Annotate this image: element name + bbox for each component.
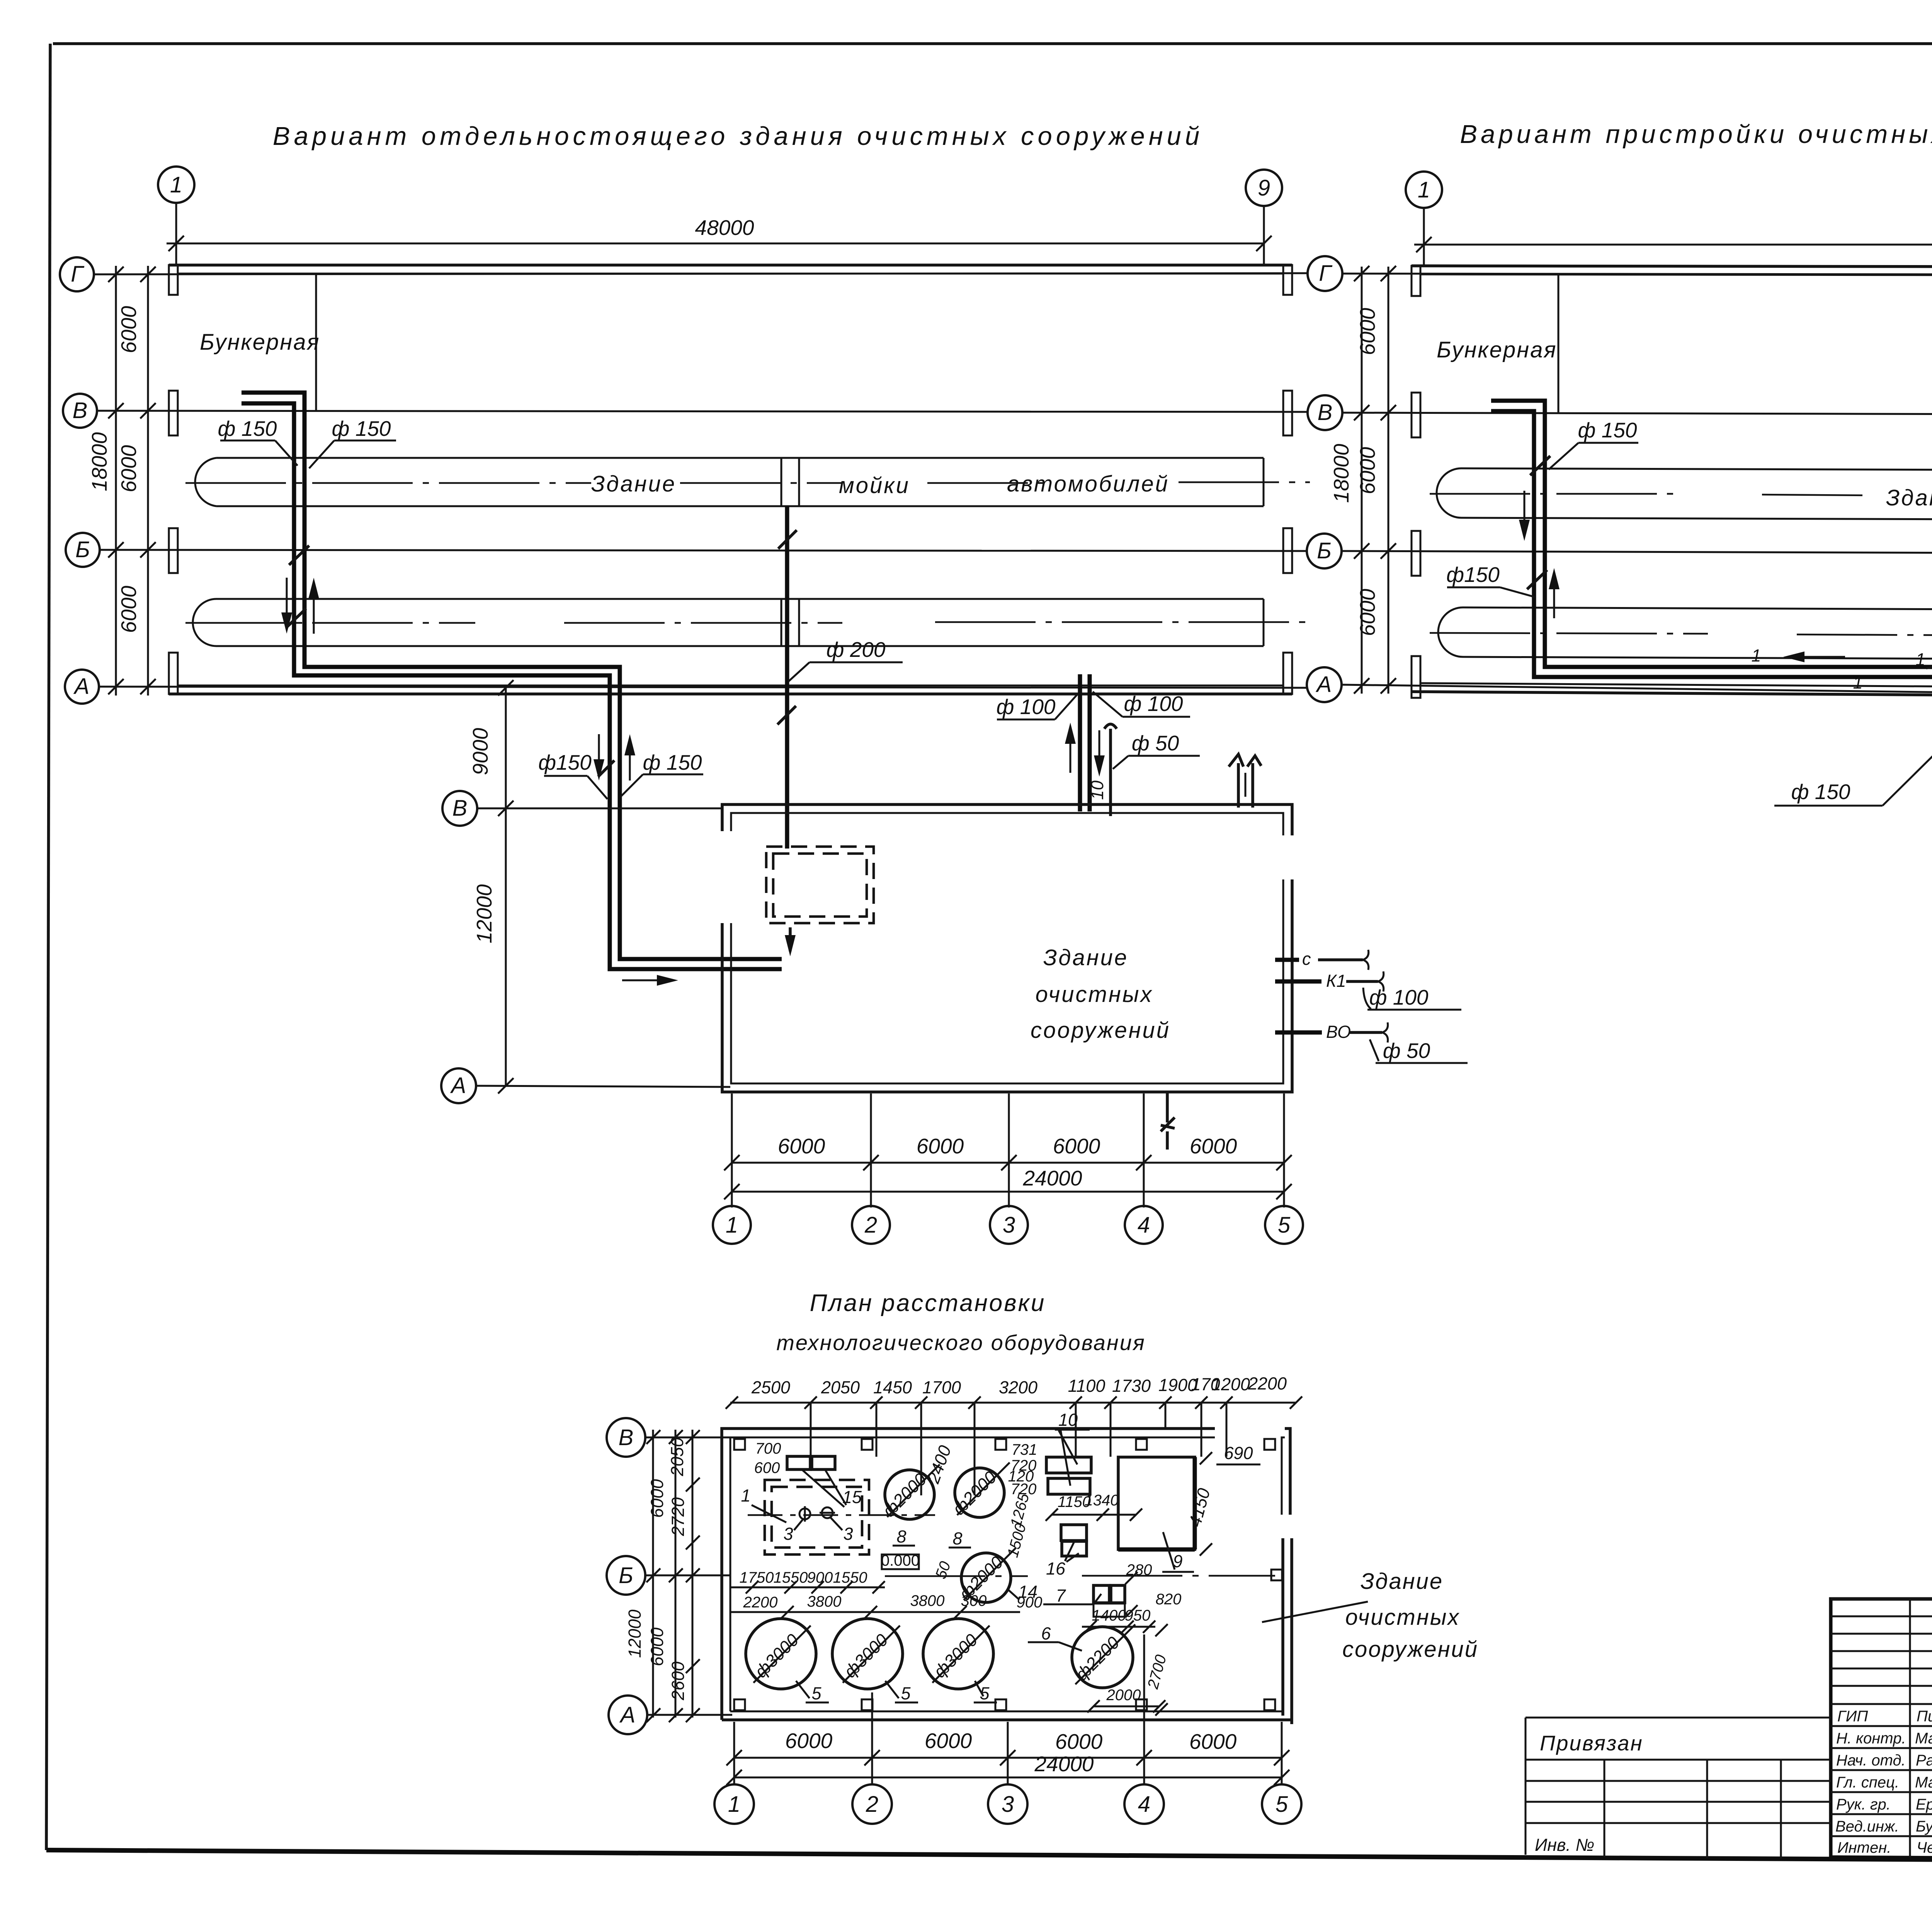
arrow down below pit (v1) xyxy=(789,927,792,951)
svg-text:1730: 1730 xyxy=(1112,1376,1151,1396)
svg-text:1: 1 xyxy=(726,1213,738,1238)
svg-text:Привязан: Привязан xyxy=(1540,1731,1643,1755)
svg-text:мойки: мойки xyxy=(839,473,910,498)
wash v1 column В right xyxy=(1283,391,1292,435)
svg-text:Б: Б xyxy=(619,1563,633,1588)
wash v1 left corner column Г xyxy=(169,265,178,295)
wash lane 1 (v1) xyxy=(216,457,1264,459)
equip 9 big tank xyxy=(1118,1457,1195,1549)
axis В treatment v1 xyxy=(477,808,722,810)
axis circle А left xyxy=(65,670,99,704)
flow arrow up (v1 lower pipe) xyxy=(629,738,631,781)
svg-text:2050: 2050 xyxy=(821,1378,860,1397)
grid circles 1-5 (plan) xyxy=(714,1784,754,1824)
svg-text:6000: 6000 xyxy=(1355,447,1379,494)
dim 48000 (v2) xyxy=(1414,244,1932,246)
column squares top row xyxy=(734,1439,745,1450)
svg-text:К1: К1 xyxy=(1326,971,1346,991)
svg-text:6000: 6000 xyxy=(785,1729,833,1753)
svg-text:Н. контр.: Н. контр. xyxy=(1836,1730,1906,1747)
wash v1 column В left xyxy=(169,391,178,435)
flotation tank 1 dashed xyxy=(765,1480,869,1554)
svg-text:820: 820 xyxy=(1156,1591,1182,1608)
svg-text:6: 6 xyxy=(1041,1624,1051,1643)
svg-text:Инв. №: Инв. № xyxy=(1535,1835,1594,1855)
pipe К trap v1 (thick) outer run xyxy=(241,393,782,959)
svg-text:9: 9 xyxy=(1258,175,1270,201)
svg-text:ф 150: ф 150 xyxy=(1791,780,1850,804)
stamp name rows xyxy=(1831,1703,1932,1705)
svg-text:9000: 9000 xyxy=(468,728,492,775)
svg-text:1: 1 xyxy=(1853,673,1862,692)
svg-text:Б: Б xyxy=(75,537,90,562)
bunker partition v1 xyxy=(315,274,317,411)
top dim row (plan) xyxy=(730,1402,1296,1404)
svg-text:Чертков: Чертков xyxy=(1917,1839,1932,1856)
axis Б circle (plan) xyxy=(607,1556,645,1595)
svg-text:6000: 6000 xyxy=(778,1134,825,1158)
svg-text:6000: 6000 xyxy=(1190,1134,1237,1158)
column square right Б xyxy=(1271,1570,1282,1580)
axis В circle (plan) xyxy=(607,1418,645,1457)
pipe К trap v2 (thick) inner run xyxy=(1491,411,1932,879)
lane 1 centerline xyxy=(185,482,1310,483)
svg-text:Гл. спец.: Гл. спец. xyxy=(1836,1774,1899,1791)
pipe break slashes v2 xyxy=(1530,456,1550,475)
svg-text:Нач. отд.: Нач. отд. xyxy=(1836,1752,1906,1769)
svg-text:3: 3 xyxy=(783,1524,793,1544)
svg-text:7: 7 xyxy=(1056,1586,1066,1605)
axis А circle (plan) xyxy=(609,1696,647,1734)
axis А line (v2) xyxy=(1342,685,1932,701)
svg-text:Пивторак: Пивторак xyxy=(1917,1708,1932,1725)
bottom extension lines (plan) xyxy=(733,1722,735,1784)
svg-text:ф 100: ф 100 xyxy=(1369,985,1429,1009)
svg-text:ф 150: ф 150 xyxy=(218,417,277,440)
svg-text:18000: 18000 xyxy=(1329,444,1353,503)
svg-text:12000: 12000 xyxy=(472,884,496,943)
stamp left column verticals xyxy=(1909,1599,1911,1857)
attachment table left xyxy=(1526,1718,1831,1855)
svg-text:1200: 1200 xyxy=(1211,1374,1250,1394)
svg-text:Марионков: Марионков xyxy=(1915,1774,1932,1791)
svg-text:Вариант пристройки очистных: Вариант пристройки очистных сооружений к… xyxy=(1460,120,1932,149)
building walls (plan) top xyxy=(722,1429,1290,1720)
outlet К1 (v1) xyxy=(1275,980,1321,984)
svg-text:В: В xyxy=(1318,400,1333,425)
svg-text:2: 2 xyxy=(864,1213,877,1238)
pipe slash break (v1 lower) xyxy=(598,760,614,777)
riser ф200 (v1) xyxy=(785,506,789,849)
grid circle 1 (v1) xyxy=(158,167,194,203)
svg-text:6000: 6000 xyxy=(647,1628,667,1666)
septic ф3000 circle 1 xyxy=(746,1619,816,1689)
svg-text:6000: 6000 xyxy=(925,1729,972,1753)
ticks for 2050/2720/2600 sub dims xyxy=(686,1478,700,1492)
axis Б dash-dot line across plan xyxy=(885,1576,1275,1576)
svg-text:ф150: ф150 xyxy=(1446,563,1500,587)
svg-text:731: 731 xyxy=(1012,1441,1037,1458)
svg-text:6000: 6000 xyxy=(1355,308,1379,355)
svg-text:3: 3 xyxy=(1003,1213,1015,1238)
grid circle 1 (v2) xyxy=(1406,172,1442,208)
wash v2 column В left xyxy=(1412,393,1420,437)
pipe К trap v1 (thick) inner run xyxy=(241,403,782,969)
svg-text:Вед.инж.: Вед.инж. xyxy=(1835,1818,1899,1835)
svg-text:8: 8 xyxy=(952,1529,962,1548)
svg-text:ВО: ВО xyxy=(1326,1022,1351,1042)
dim 48000 (v1) xyxy=(167,243,1264,245)
svg-text:А: А xyxy=(1316,672,1332,697)
svg-text:6000: 6000 xyxy=(647,1479,667,1518)
svg-text:Б: Б xyxy=(1317,538,1332,563)
lane cross band (doors) xyxy=(781,458,782,506)
wash v1 right corner column Г xyxy=(1283,265,1292,295)
treatment building v1 top+right wall outer xyxy=(722,804,1292,835)
flow arrow right (into building v1) xyxy=(622,980,674,981)
vertical dim line 9000/12000 (v1) xyxy=(505,688,507,1087)
svg-text:1: 1 xyxy=(1418,177,1430,202)
svg-text:16: 16 xyxy=(1046,1559,1066,1578)
svg-text:А: А xyxy=(619,1702,636,1728)
left dim lines (plan) xyxy=(652,1430,654,1718)
svg-text:18000: 18000 xyxy=(87,432,111,491)
extension verticals from top dims xyxy=(810,1403,812,1457)
dim row 24000 (v1 treatment) xyxy=(732,1191,1284,1193)
flow arrow up (v2 upper pipe) xyxy=(1553,572,1555,618)
label ф100 for К1 (v1) xyxy=(1363,988,1371,1009)
svg-text:1550: 1550 xyxy=(774,1569,808,1586)
axis Б line (v2) xyxy=(1342,551,1932,554)
middle axis circle А xyxy=(1307,667,1342,702)
wash v2 column Б left xyxy=(1412,531,1420,576)
svg-text:ф 200: ф 200 xyxy=(827,638,886,662)
svg-text:8: 8 xyxy=(896,1527,906,1546)
svg-text:2000: 2000 xyxy=(1106,1687,1141,1704)
axis А treatment v1 xyxy=(476,1086,730,1087)
outlet с (v1) xyxy=(1275,958,1299,962)
pipe break slashes v1 xyxy=(289,546,309,565)
svg-text:4: 4 xyxy=(1138,1213,1150,1238)
svg-text:5: 5 xyxy=(1276,1792,1288,1817)
svg-text:6000: 6000 xyxy=(917,1134,964,1158)
svg-text:12000: 12000 xyxy=(625,1609,645,1658)
svg-text:3: 3 xyxy=(1002,1792,1014,1817)
middle axis circle Г xyxy=(1308,256,1342,291)
svg-text:ф 150: ф 150 xyxy=(1578,418,1637,442)
svg-text:280: 280 xyxy=(1126,1561,1152,1578)
svg-text:1: 1 xyxy=(741,1486,750,1505)
svg-text:5: 5 xyxy=(901,1684,911,1703)
svg-text:В: В xyxy=(452,796,468,821)
svg-text:Бункерная: Бункерная xyxy=(200,330,320,355)
svg-text:1: 1 xyxy=(1751,646,1761,665)
axis circle В left xyxy=(63,394,97,428)
septic ф3000 circle 3 xyxy=(923,1619,993,1689)
svg-text:5: 5 xyxy=(811,1684,821,1703)
svg-text:6000: 6000 xyxy=(1189,1730,1237,1753)
grid circle 9 (v1) xyxy=(1246,170,1282,206)
svg-text:900: 900 xyxy=(807,1569,833,1586)
extension lines to bottom dims (v1 treatment) xyxy=(731,1094,733,1207)
svg-text:2200: 2200 xyxy=(743,1594,778,1611)
svg-text:технологического оборудования: технологического оборудования xyxy=(776,1330,1146,1355)
wash building v1 bottom wall (А) xyxy=(169,692,1292,696)
mark 0.000 xyxy=(882,1554,919,1569)
svg-text:Здание: Здание xyxy=(1361,1569,1443,1594)
svg-text:План расстановки: План расстановки xyxy=(810,1290,1046,1316)
flow arrow left (v2 horizontal pipe) xyxy=(1787,656,1845,658)
svg-text:ф 50: ф 50 xyxy=(1383,1039,1430,1063)
svg-text:2050: 2050 xyxy=(667,1437,687,1476)
svg-text:Бункерная: Бункерная xyxy=(1437,337,1557,362)
svg-text:600: 600 xyxy=(754,1459,780,1476)
svg-text:очистных: очистных xyxy=(1036,982,1153,1007)
wash lane 2 (v2) xyxy=(1463,607,1932,611)
svg-text:2500: 2500 xyxy=(751,1378,790,1397)
svg-text:2200: 2200 xyxy=(1248,1374,1287,1393)
svg-text:ф 150: ф 150 xyxy=(643,750,702,774)
equip 15 rects xyxy=(787,1456,810,1469)
svg-text:10: 10 xyxy=(1087,781,1107,800)
axis circle Б left xyxy=(66,533,100,567)
pipe К trap v2 (thick) outer run xyxy=(1491,401,1932,848)
svg-text:Интен.: Интен. xyxy=(1837,1839,1891,1856)
wash v1 left corner column А xyxy=(169,653,178,694)
settler ф2200 circle xyxy=(1072,1627,1133,1688)
svg-text:3800: 3800 xyxy=(910,1592,945,1609)
svg-text:0.000: 0.000 xyxy=(881,1552,920,1569)
wash v1 column Б right xyxy=(1283,528,1292,573)
axis В line (v2) xyxy=(1342,413,1932,415)
svg-text:А: А xyxy=(73,674,90,699)
vent stack symbol (v1) xyxy=(1237,763,1240,808)
label ф50 for ВО (v1) xyxy=(1370,1039,1379,1061)
svg-text:Рук. гр.: Рук. гр. xyxy=(1836,1796,1891,1813)
svg-text:В: В xyxy=(73,398,88,423)
svg-text:Вариант отдельностоящего зда: Вариант отдельностоящего здания очистных… xyxy=(273,122,1203,151)
svg-text:48000: 48000 xyxy=(695,216,754,240)
left dim stack 18000 (v1) xyxy=(115,266,117,696)
hydrocyclone pit dashed (v1) xyxy=(766,847,874,923)
equip 10 rects xyxy=(1046,1457,1091,1473)
svg-text:24000: 24000 xyxy=(1034,1752,1094,1776)
hydrocyclone ф2000 circle b xyxy=(955,1468,1004,1517)
flotator centerline xyxy=(748,1514,935,1516)
svg-text:1: 1 xyxy=(170,172,182,197)
svg-text:2720: 2720 xyxy=(668,1497,688,1536)
axis Г line (v2) xyxy=(1342,274,1932,275)
septic ф3000 circle 2 xyxy=(832,1619,903,1689)
svg-text:Марионков: Марионков xyxy=(1915,1730,1932,1747)
svg-text:автомобилей: автомобилей xyxy=(1007,471,1169,497)
svg-text:Ратников: Ратников xyxy=(1916,1752,1932,1769)
middle axis circle Б xyxy=(1307,534,1342,568)
dim row 24000 (plan) xyxy=(734,1777,1282,1779)
arrow up on ф100 xyxy=(1070,726,1071,773)
svg-text:6000: 6000 xyxy=(117,306,141,353)
dim row 6000x4 (v1 treatment) xyxy=(732,1162,1284,1164)
outlet ВО (v1) xyxy=(1275,1031,1322,1035)
wash lane 2 (v1) xyxy=(216,598,1264,600)
treatment v1 left+bottom wall outer xyxy=(722,879,1292,1092)
middle axis circle В xyxy=(1308,395,1342,430)
stamp outer box xyxy=(1831,1599,1932,1862)
svg-text:с: с xyxy=(1302,949,1311,969)
svg-text:очистных: очистных xyxy=(1345,1605,1460,1630)
hydrocyclone ф2000 circle c xyxy=(961,1553,1011,1602)
axis А line (v1) xyxy=(99,687,1308,688)
treatment building v1 top wall inner xyxy=(731,813,1283,835)
leader to building xyxy=(1262,1602,1368,1622)
flow arrow down (v1 pipe) xyxy=(286,578,288,630)
wash lane 1 (v2) xyxy=(1461,468,1932,471)
wash v2 left corner column А xyxy=(1412,656,1420,698)
svg-text:3800: 3800 xyxy=(807,1593,842,1610)
svg-text:6000: 6000 xyxy=(1055,1730,1103,1753)
svg-text:3200: 3200 xyxy=(999,1378,1037,1397)
lane 1 centerline (v2) xyxy=(1430,494,1932,499)
equip 16 rects xyxy=(1061,1525,1087,1541)
svg-text:300: 300 xyxy=(961,1592,987,1609)
svg-text:24000: 24000 xyxy=(1023,1166,1082,1190)
impeller circles in tank 1 xyxy=(799,1509,810,1519)
svg-text:ф 100: ф 100 xyxy=(1124,692,1183,716)
lane 2 centerline (v2) xyxy=(1430,633,1932,638)
svg-text:950: 950 xyxy=(1125,1607,1151,1624)
svg-text:Здание: Здание xyxy=(591,471,676,497)
wash building v2 top wall xyxy=(1412,266,1932,267)
svg-text:ф 100: ф 100 xyxy=(997,695,1056,719)
svg-text:700: 700 xyxy=(755,1440,781,1457)
svg-text:сооружений: сооружений xyxy=(1342,1637,1478,1662)
svg-text:сооружений: сооружений xyxy=(1031,1018,1170,1043)
bunker partition v2 xyxy=(1558,274,1560,413)
lane 2 centerline xyxy=(185,622,1310,623)
svg-text:Здание: Здание xyxy=(1886,485,1932,510)
svg-text:1: 1 xyxy=(728,1792,740,1817)
column squares bottom row xyxy=(734,1699,745,1710)
svg-text:В: В xyxy=(619,1425,634,1450)
flow arrow down (v1 lower pipe) xyxy=(598,734,600,777)
wash building v1 top wall xyxy=(169,264,1292,267)
svg-text:900: 900 xyxy=(1017,1594,1043,1611)
svg-text:Г: Г xyxy=(1319,261,1333,286)
pipe ф50 (v1) xyxy=(1109,729,1112,816)
svg-text:6000: 6000 xyxy=(1053,1134,1100,1158)
wash building v2 bottom wall (А) xyxy=(1412,692,1932,699)
wash v1 column Б left xyxy=(169,528,178,573)
grid circles 1-5 (v1 treatment) xyxy=(713,1206,751,1244)
svg-text:ф 50: ф 50 xyxy=(1132,731,1179,755)
building walls (plan) bottom + right xyxy=(722,1538,1292,1724)
treatment v1 left+bottom wall inner xyxy=(731,879,1283,1083)
svg-text:2600: 2600 xyxy=(668,1662,688,1701)
flow arrow down (v2 upper pipe) xyxy=(1524,491,1526,537)
svg-text:Булычева: Булычева xyxy=(1916,1818,1932,1835)
svg-text:6000: 6000 xyxy=(117,445,141,492)
dim row 6000x4 (plan) xyxy=(734,1757,1282,1759)
svg-text:ГИП: ГИП xyxy=(1837,1708,1868,1725)
middle dim stack 18000 (v2) xyxy=(1361,267,1363,694)
svg-text:ф 150: ф 150 xyxy=(332,417,391,440)
svg-text:1340: 1340 xyxy=(1085,1492,1119,1509)
svg-text:1: 1 xyxy=(1915,650,1925,669)
svg-text:2: 2 xyxy=(866,1792,878,1817)
svg-text:Здание: Здание xyxy=(1043,945,1128,970)
svg-text:1450: 1450 xyxy=(873,1378,912,1397)
wash v1 right corner column А xyxy=(1283,653,1292,694)
flow arrow up (v1 pipe) xyxy=(313,582,315,634)
svg-text:10: 10 xyxy=(1058,1410,1078,1430)
svg-text:ф150: ф150 xyxy=(538,750,592,774)
svg-text:Ермакова: Ермакова xyxy=(1916,1796,1932,1813)
svg-text:Г: Г xyxy=(71,262,85,287)
axis Б line (v1) xyxy=(100,550,1308,551)
equip 7 rects xyxy=(1094,1585,1109,1603)
svg-text:6000: 6000 xyxy=(117,585,141,633)
pipes ф100 pair (v1) xyxy=(1078,674,1082,811)
svg-text:1700: 1700 xyxy=(922,1378,961,1397)
svg-text:690: 690 xyxy=(1224,1443,1253,1463)
svg-text:6000: 6000 xyxy=(1355,588,1379,636)
stamp upper small rows xyxy=(1831,1616,1932,1617)
svg-text:3: 3 xyxy=(843,1524,853,1544)
hydrocyclone ф2000 circle a xyxy=(885,1470,934,1519)
svg-text:4: 4 xyxy=(1138,1792,1150,1817)
axis В line (v1) xyxy=(97,411,1308,412)
sewer N break mark (v1) xyxy=(1166,1092,1169,1122)
svg-text:1100: 1100 xyxy=(1068,1376,1105,1396)
svg-text:5: 5 xyxy=(1278,1213,1291,1238)
axis circle Г left xyxy=(60,257,94,291)
wash v2 left corner column Г xyxy=(1412,266,1420,296)
axis Г line (v1) xyxy=(94,273,1308,274)
arrow down on ф100 xyxy=(1099,730,1100,773)
svg-text:А: А xyxy=(450,1073,466,1098)
